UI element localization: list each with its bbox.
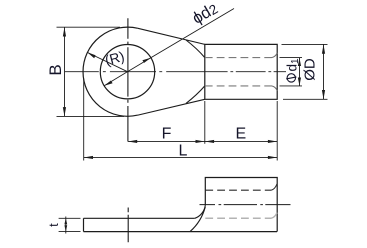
dimension B extension top xyxy=(57,26,121,28)
label OD xyxy=(302,58,319,81)
E/L extension line at barrel right xyxy=(276,101,278,161)
svg-text:F: F xyxy=(162,125,172,142)
side view barrel outline xyxy=(205,178,277,232)
dimension L line xyxy=(84,156,278,158)
dimension B extension bottom xyxy=(57,115,125,117)
side view vertical center mark xyxy=(127,208,129,243)
label od1 xyxy=(285,58,301,72)
svg-text:B: B xyxy=(46,64,65,75)
bell mouth curve top xyxy=(272,53,278,58)
hole circle xyxy=(100,44,154,98)
side view tongue top xyxy=(84,217,195,219)
svg-text:t: t xyxy=(46,223,61,227)
barrel neck curve bottom xyxy=(186,86,205,104)
dimension OD line xyxy=(323,44,325,99)
vertical centerline (top view) xyxy=(127,18,129,141)
bore hidden line top xyxy=(205,57,272,59)
dimension B line xyxy=(63,27,65,116)
dimension od1 extension top xyxy=(280,57,303,59)
barrel outline (top view) xyxy=(205,44,277,99)
label t xyxy=(46,223,61,227)
L extension line at ring left xyxy=(83,79,85,161)
horizontal centerline (top view) xyxy=(65,71,286,73)
tangent line top xyxy=(138,28,205,44)
side view bell mouth top xyxy=(271,184,277,190)
label (R) xyxy=(103,48,126,68)
dimension od2 leader xyxy=(104,9,234,86)
side view lower transition curve xyxy=(190,207,205,232)
side view bore hidden top xyxy=(205,189,271,191)
dimension od1 line xyxy=(298,58,300,86)
svg-text:E: E xyxy=(235,125,246,142)
dimension F line xyxy=(128,140,205,142)
side view seat hidden line xyxy=(205,217,271,219)
dimension t extension top xyxy=(59,217,81,219)
label od2 xyxy=(189,0,220,28)
dimension OD extension top xyxy=(282,43,328,45)
dimension OD extension bottom xyxy=(283,98,328,100)
barrel neck curve top xyxy=(186,40,205,58)
side view upper transition curve xyxy=(195,205,206,218)
svg-text:L: L xyxy=(179,143,188,160)
dimension R leader xyxy=(87,52,127,71)
side view centerline xyxy=(200,204,291,206)
outer ring contour xyxy=(83,27,138,116)
svg-text:ØD: ØD xyxy=(302,58,319,81)
bell mouth curve bottom xyxy=(272,86,278,91)
dimension E line xyxy=(205,140,277,142)
tangent line bottom xyxy=(138,99,205,115)
dimension t extension bottom xyxy=(59,231,81,233)
label od1 phi symbol xyxy=(286,74,296,82)
side view tongue left edge xyxy=(83,218,85,231)
side view bottom line xyxy=(84,231,278,233)
F/E extension line at barrel left xyxy=(204,101,206,144)
dimension t line xyxy=(65,217,67,234)
bore hidden line bottom xyxy=(205,85,272,87)
side view bell mouth bottom xyxy=(271,213,277,219)
dimension od1 extension bottom xyxy=(280,85,303,87)
